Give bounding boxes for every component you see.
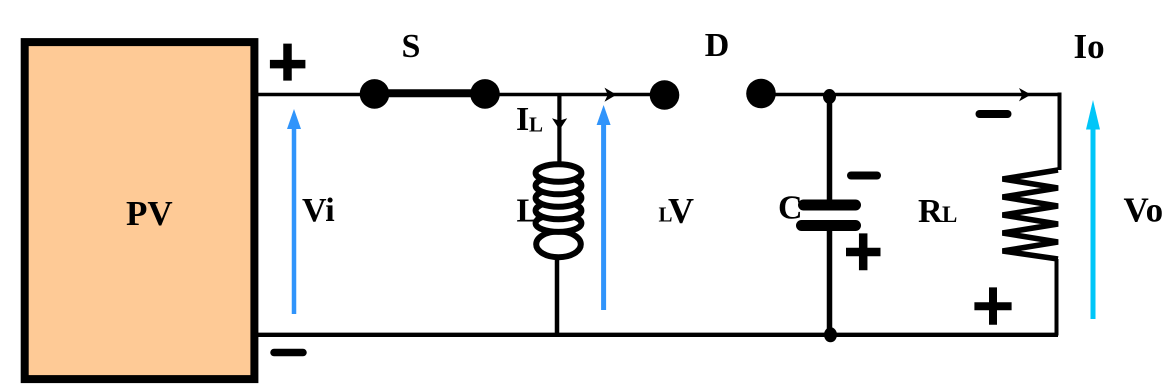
svg-text:S: S: [402, 28, 421, 65]
wire right side top: [1058, 93, 1062, 171]
minus sign at PV bottom terminal: [274, 349, 303, 357]
svg-text:L: L: [529, 113, 543, 137]
wire junction down to inductor: [557, 95, 561, 171]
wire PV top to switch: [256, 93, 373, 97]
wire inductor bottom to rail: [555, 250, 560, 335]
wire diode to output corner: [761, 93, 1062, 97]
svg-text:L: L: [942, 202, 957, 227]
inductor L coil: [536, 164, 582, 257]
capacitor plate bottom: [802, 220, 856, 231]
wire bottom rail: [256, 333, 1058, 337]
capacitor plate top: [804, 200, 856, 211]
node junction top of capacitor: [823, 89, 836, 104]
node junction bottom of capacitor: [824, 327, 837, 342]
Vo arrow (cyan): [1091, 128, 1096, 319]
capacitor minus sign: [851, 172, 877, 180]
svg-text:Vo: Vo: [1124, 191, 1164, 230]
minus sign above resistor: [980, 110, 1008, 118]
resistor RL zigzag: [1003, 170, 1059, 259]
plus sign below resistor: [974, 287, 1011, 324]
switch S bar: [374, 89, 485, 97]
Vi arrow (blue): [292, 126, 297, 314]
svg-text:V: V: [668, 191, 694, 231]
VL arrow (blue): [601, 124, 606, 310]
capacitor plus sign: [846, 233, 881, 270]
diode D node dot right: [746, 79, 776, 109]
capacitor top lead: [827, 95, 833, 203]
svg-text:R: R: [918, 193, 943, 230]
svg-text:I: I: [516, 101, 529, 138]
svg-text:D: D: [705, 27, 730, 64]
IL arrow down on wire: [552, 118, 567, 130]
capacitor bottom lead: [827, 229, 833, 335]
Io direction arrowhead: [1019, 88, 1031, 101]
diode D node dot left: [650, 80, 680, 110]
svg-text:PV: PV: [126, 194, 173, 233]
PV source block: [25, 42, 255, 379]
plus sign at PV top terminal: [270, 44, 306, 81]
wire switch to diode node: [485, 93, 656, 97]
svg-text:Io: Io: [1074, 27, 1105, 66]
switch node dot right: [470, 79, 500, 109]
wire right side bottom: [1055, 259, 1059, 336]
svg-text:Vi: Vi: [302, 192, 335, 229]
switch node dot left: [360, 79, 390, 109]
current direction arrowhead on wire: [605, 88, 617, 102]
